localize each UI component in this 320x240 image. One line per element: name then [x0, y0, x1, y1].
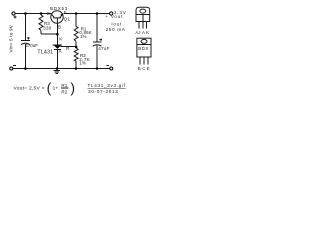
svg-text:1+: 1+: [53, 85, 59, 91]
formula fraction bar: [61, 87, 69, 89]
svg-text:E: E: [147, 66, 150, 71]
capacitor C1: [21, 39, 30, 41]
wire R1 top: [75, 14, 77, 26]
svg-text:Vin= 5 to 9V: Vin= 5 to 9V: [9, 24, 14, 52]
svg-text:(: (: [47, 80, 52, 96]
wire base: [56, 23, 58, 33]
capacitor C1 wire top: [24, 14, 26, 40]
svg-text:1%: 1%: [79, 60, 86, 65]
svg-text:K: K: [59, 37, 62, 42]
label plus sign input: [13, 15, 16, 18]
resistor R3: [39, 15, 43, 30]
label C1 polarity: [27, 37, 29, 39]
wire top rail output: [63, 13, 109, 15]
svg-text:+ Vout: + Vout: [105, 14, 123, 19]
terminal input plus: [12, 12, 15, 15]
package TO92 TL431: [136, 7, 150, 21]
svg-text:E: E: [64, 10, 67, 15]
junction C1 bottom: [24, 67, 27, 70]
svg-text:TL431_3v3.gif: TL431_3v3.gif: [88, 83, 126, 88]
svg-text:250 mA: 250 mA: [106, 27, 126, 32]
svg-text:30-07-2013: 30-07-2013: [88, 89, 119, 94]
capacitor C2 wire top: [96, 14, 98, 42]
svg-text:470uF: 470uF: [25, 43, 38, 48]
wire R1 bottom: [75, 41, 77, 47]
TL431 U1: [53, 44, 63, 46]
svg-text:Q1: Q1: [64, 16, 71, 21]
wire TL431 ref: [61, 46, 76, 48]
wire TL431 cathode: [56, 34, 58, 45]
ground: [53, 69, 60, 74]
capacitor C2 wire bottom: [96, 45, 98, 68]
pins TO220: [140, 57, 148, 65]
junction C2 top: [96, 12, 99, 15]
resistor R2: [74, 48, 78, 61]
junction R1 top: [75, 12, 78, 15]
resistor R1: [74, 26, 78, 41]
wire R3 to base node: [41, 30, 57, 34]
junction R2 bottom: [75, 67, 78, 70]
wire R2 bottom: [75, 61, 77, 68]
wire TL431 anode: [56, 49, 58, 68]
svg-text:B: B: [138, 66, 141, 71]
label minus output: [106, 65, 109, 67]
svg-text:330: 330: [43, 25, 52, 30]
svg-text:Vout= 2,5V ×: Vout= 2,5V ×: [14, 85, 45, 91]
capacitor C1 wire bottom: [24, 44, 26, 69]
junction R3 top: [40, 12, 43, 15]
label C2 polarity: [100, 38, 102, 40]
svg-text:): ): [70, 80, 75, 96]
svg-text:B: B: [58, 25, 61, 30]
capacitor C2: [93, 41, 102, 43]
wire bottom rail: [13, 68, 110, 70]
svg-text:BDX: BDX: [138, 46, 149, 51]
transistor Q1: [51, 11, 63, 23]
terminal output plus: [110, 12, 113, 15]
svg-text:AJ A K: AJ A K: [135, 30, 149, 35]
wire top rail input: [15, 13, 51, 15]
junction ground: [56, 67, 59, 70]
pins TO92: [139, 22, 147, 29]
svg-text:TL431: TL431: [37, 50, 53, 56]
svg-text:1%: 1%: [80, 34, 87, 39]
package TO220 BDX53: [137, 38, 151, 57]
terminal output minus: [110, 67, 113, 70]
svg-text:47uF: 47uF: [98, 46, 109, 51]
terminal input minus: [10, 67, 13, 70]
svg-text:R1: R1: [61, 83, 67, 88]
junction C1 top: [24, 12, 27, 15]
junction C2 bottom: [96, 67, 99, 70]
junction ref node: [75, 46, 78, 49]
svg-text:C: C: [142, 66, 145, 71]
svg-text:A: A: [59, 49, 62, 54]
junction base node: [56, 33, 59, 36]
label minus input: [13, 65, 16, 67]
svg-text:R2: R2: [61, 89, 67, 94]
